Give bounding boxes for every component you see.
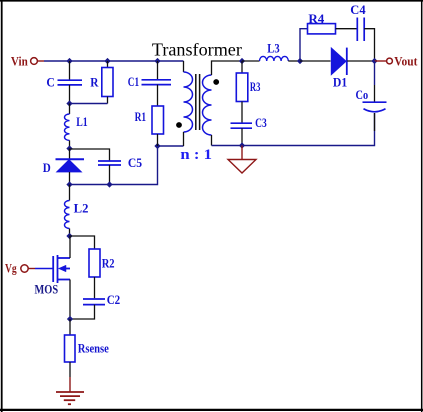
wire top rail primary: [44, 60, 184, 62]
wire R3 junction to L3: [242, 60, 260, 62]
svg-text:L3: L3: [267, 41, 279, 55]
wire D anode lead: [69, 172, 71, 185]
svg-text:C3: C3: [255, 116, 267, 130]
wire Co bottom lead: [374, 113, 376, 131]
resistor R3: [236, 73, 248, 102]
svg-text:C4: C4: [350, 3, 366, 17]
wire Vout stub: [375, 60, 387, 62]
wire R4 branch up: [300, 29, 308, 61]
wire secondary bottom rail: [242, 113, 375, 146]
resistor Rsense: [65, 335, 76, 362]
wire D1 cathode lead: [347, 60, 374, 62]
node junction source: [68, 317, 73, 322]
inductor L2: [65, 201, 70, 229]
wire secondary bottom to ground junction: [212, 145, 243, 147]
capacitor C2: [83, 299, 105, 305]
ground GND2 stub: [241, 146, 243, 160]
diode D: [56, 159, 85, 172]
node junction C1 top: [155, 59, 160, 64]
wire C1 to R1: [157, 85, 159, 106]
inductor L3: [260, 56, 289, 61]
transformer core: [196, 74, 200, 130]
wire secondary top pin: [212, 61, 243, 75]
wire L2 bottom lead: [69, 229, 71, 237]
svg-text:R4: R4: [308, 12, 325, 26]
wire L2 top lead: [69, 185, 71, 201]
ground GND1 earth bars: [56, 392, 84, 404]
svg-text:R2: R2: [102, 257, 115, 271]
resistor R: [102, 68, 113, 97]
wire C4 to Vout corner: [364, 29, 374, 61]
ground GND1 stub: [69, 377, 71, 392]
wire C bottom lead: [69, 85, 71, 104]
wire source vertical: [69, 280, 71, 320]
wire clamp bottom rail: [70, 146, 184, 185]
svg-text:MOS: MOS: [35, 283, 59, 297]
svg-text:Transformer: Transformer: [152, 40, 242, 60]
node Vin terminal: [31, 58, 38, 65]
wire R2 branch top: [70, 236, 95, 249]
node junction C top: [67, 59, 72, 64]
resistor R1: [152, 106, 164, 134]
capacitor C3: [231, 123, 253, 128]
wire secondary bottom pin: [211, 135, 213, 146]
wire Rsense bottom lead: [69, 362, 71, 377]
transformer primary winding: [184, 72, 193, 132]
capacitor C4: [357, 18, 364, 42]
wire Co top lead: [374, 61, 376, 85]
node junction C bottom: [67, 101, 72, 106]
wire Rsense top lead: [69, 319, 71, 335]
capacitor Co: [363, 102, 387, 112]
transistor MOS: [53, 255, 70, 283]
wire R1 bottom lead: [157, 134, 159, 146]
node junction ground: [240, 143, 245, 148]
transformer secondary winding: [203, 75, 212, 135]
svg-text:Vg: Vg: [5, 261, 17, 275]
svg-text:D1: D1: [333, 75, 347, 89]
ground GND2 triangle: [228, 160, 256, 174]
svg-text:C: C: [46, 76, 54, 90]
wire C top lead: [69, 61, 71, 80]
resistor R4: [308, 24, 336, 34]
svg-text:L1: L1: [76, 115, 88, 129]
wire primary top pin: [183, 61, 185, 72]
node junction D top: [67, 146, 72, 151]
node junction C5 bottom: [107, 182, 112, 187]
svg-text:R: R: [90, 76, 99, 90]
svg-text:D: D: [43, 161, 51, 175]
inductor L1: [64, 114, 69, 140]
capacitor C5: [98, 161, 121, 165]
node junction R3 top: [240, 59, 245, 64]
wire R bottom to C junction: [70, 103, 108, 105]
node secondary phase dot: [213, 79, 219, 85]
svg-text:C2: C2: [107, 293, 121, 307]
wire D cathode lead: [69, 149, 71, 160]
wire gate lead: [35, 268, 53, 270]
wire C2 bottom to source junction: [70, 305, 95, 319]
svg-text:Rsense: Rsense: [78, 342, 110, 356]
capacitor C1: [142, 80, 172, 85]
svg-text:R1: R1: [135, 110, 147, 124]
node junction Vout: [372, 59, 377, 64]
svg-text:R3: R3: [250, 80, 261, 94]
svg-text:Vout: Vout: [394, 55, 418, 69]
node junction L2 bottom: [67, 234, 72, 239]
svg-text:Vin: Vin: [11, 55, 28, 69]
svg-text:C5: C5: [128, 156, 142, 170]
svg-text:L2: L2: [74, 201, 89, 215]
wire drain vertical: [69, 236, 71, 258]
wire C5 bottom lead: [109, 165, 111, 185]
svg-text:Co: Co: [356, 88, 369, 102]
resistor R2: [89, 249, 100, 277]
node primary phase dot: [176, 122, 182, 128]
wire D1 anode lead: [300, 60, 331, 62]
diode D1: [331, 48, 347, 75]
node junction D bottom: [67, 182, 72, 187]
wire C3 bottom lead: [241, 128, 243, 145]
wire R3 top lead: [241, 61, 243, 73]
wire R bottom lead: [107, 97, 109, 104]
wire Vg stub: [29, 268, 36, 270]
wire Vin stub: [38, 60, 45, 62]
wire L1 top lead: [69, 104, 71, 115]
capacitor C: [58, 80, 83, 85]
svg-text:n : 1: n : 1: [180, 147, 212, 163]
node junction R1 bottom: [155, 144, 160, 149]
node Vg terminal: [21, 265, 28, 272]
node junction L3 out: [298, 59, 303, 64]
wire R4 to C4: [336, 28, 358, 30]
wire primary bottom pin: [183, 132, 185, 146]
node Vout terminal: [387, 58, 393, 64]
wire L3 to D1 junction: [288, 60, 300, 62]
node junction R top: [105, 59, 110, 64]
wire C1 top lead: [157, 61, 159, 79]
svg-text:C1: C1: [128, 75, 139, 89]
wire L1 bottom lead: [69, 140, 71, 148]
wire R2 to C2: [94, 277, 96, 298]
wire C5 top branch: [70, 149, 110, 161]
transistor MOS arrow: [59, 265, 67, 272]
wire R top lead: [107, 61, 109, 68]
wire R3 to C3: [241, 102, 243, 123]
